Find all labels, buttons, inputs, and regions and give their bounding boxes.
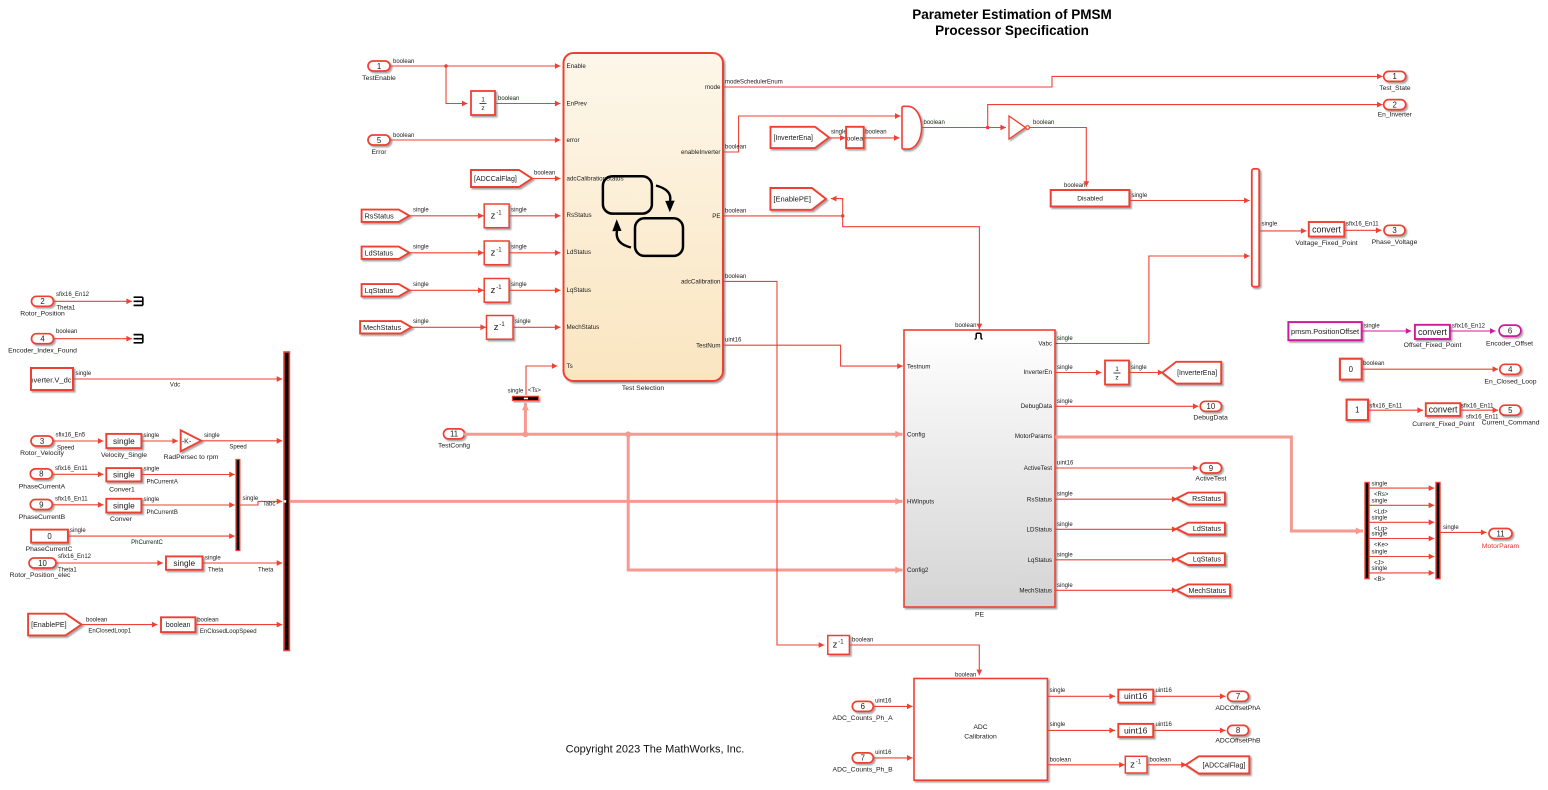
wire gain to mux Speed (201, 433, 282, 451)
inport 8 PhaseCurrentA (19, 469, 66, 490)
wire to Offset convert (1362, 323, 1412, 334)
outport 2 En_Inverter (1378, 100, 1413, 119)
goto tag RsStatus (1177, 493, 1225, 505)
wire unit delay to EnPrev (495, 96, 561, 106)
svg-text:-K-: -K- (182, 438, 192, 445)
svg-text:6: 6 (861, 702, 865, 711)
svg-text:Config2: Config2 (907, 567, 929, 574)
svg-text:Voltage_Fixed_Point: Voltage_Fixed_Point (1295, 240, 1357, 247)
svg-text:inverter.V_dc: inverter.V_dc (28, 376, 72, 385)
logical operator AND (902, 106, 922, 149)
svg-text:MechStatus: MechStatus (1019, 588, 1052, 595)
svg-text:uint16: uint16 (1156, 688, 1173, 694)
svg-text:LqStatus: LqStatus (1028, 557, 1052, 564)
svg-text:Phase_Voltage: Phase_Voltage (1372, 239, 1418, 246)
svg-text:single: single (1132, 193, 1148, 199)
outport 9 ActiveTest (1195, 463, 1226, 483)
svg-text:PhaseCurrentA: PhaseCurrentA (19, 483, 66, 490)
svg-text:single: single (1057, 365, 1073, 371)
data type conversion Current_Fixed_Point (1412, 403, 1474, 428)
svg-text:ADC_Counts_Ph_A: ADC_Counts_Ph_A (833, 715, 894, 722)
svg-text:single: single (144, 467, 160, 473)
svg-text:0: 0 (47, 532, 52, 541)
svg-text:z: z (833, 640, 838, 651)
svg-text:-1: -1 (496, 285, 502, 291)
svg-text:Config: Config (907, 432, 925, 439)
svg-text:single: single (1131, 365, 1147, 371)
wire delay to LqStatus input (509, 282, 560, 293)
svg-text:Current_Fixed_Point: Current_Fixed_Point (1412, 421, 1474, 428)
from tag ADCCalFlag (471, 170, 532, 187)
svg-text:EnClosedLoopSpeed: EnClosedLoopSpeed (200, 629, 257, 635)
wire ADC out A (1047, 688, 1115, 699)
inport 10 Rotor_Position_elec (10, 558, 71, 579)
svg-text:Encoder_Index_Found: Encoder_Index_Found (8, 348, 77, 355)
svg-text:single: single (1372, 566, 1388, 572)
wire 3 to Velocity_Single (53, 433, 104, 452)
svg-text:single: single (1372, 499, 1388, 505)
svg-text:RadPersec to rpm: RadPersec to rpm (164, 454, 219, 461)
data type conversion Offset_Fixed_Point (1404, 325, 1462, 349)
svg-text:single: single (1372, 481, 1388, 487)
svg-text:11: 11 (450, 430, 458, 439)
wire Disabled to switch (1129, 193, 1249, 203)
svg-text:MechStatus: MechStatus (567, 324, 600, 331)
svg-text:boolean: boolean (725, 274, 746, 280)
wire bus signal &lt;B&gt; (1369, 566, 1434, 583)
wire PhaseCurrentC to current mux (68, 528, 235, 546)
svg-text:[ADCCalFlag]: [ADCCalFlag] (474, 176, 517, 183)
chart icon transition arrow left (612, 219, 631, 247)
svg-text:single: single (205, 556, 221, 562)
svg-text:<Ld>: <Ld> (1374, 509, 1388, 515)
subsystem ADC Calibration (914, 679, 1047, 781)
svg-text:single: single (1057, 583, 1073, 589)
svg-text:boolean: boolean (725, 145, 746, 151)
wire NOT to Disabled (1030, 120, 1090, 189)
wire mode to Test_State (723, 74, 1383, 88)
svg-text:PhCurrentB: PhCurrentB (147, 510, 178, 516)
svg-text:7: 7 (861, 754, 865, 763)
svg-text:Ts: Ts (567, 363, 573, 370)
data type conversion Theta single (166, 556, 203, 569)
svg-text:single: single (173, 558, 195, 568)
svg-text:z: z (491, 211, 496, 222)
wire AND to NOT (922, 120, 1006, 130)
unit delay 1/z InverterEn (1105, 361, 1129, 385)
svg-text:LqStatus: LqStatus (567, 287, 591, 294)
svg-text:ADCOffsetPhA: ADCOffsetPhA (1215, 705, 1261, 712)
wire HWInputs bus to PE (290, 498, 903, 505)
unit delay z-1 MechStatus (487, 316, 514, 340)
inport 11 TestConfig (438, 429, 470, 450)
wire enableInverter to AND (723, 113, 901, 152)
svg-text:-1: -1 (838, 640, 844, 646)
svg-text:single: single (1050, 722, 1066, 728)
svg-text:ADCOffsetPhB: ADCOffsetPhB (1215, 737, 1261, 744)
wire Iabc to big mux (241, 496, 283, 508)
svg-text:convert: convert (1418, 327, 1447, 337)
svg-text:Speed: Speed (57, 446, 74, 452)
terminator Theta1 (134, 297, 143, 305)
gain RadPersec to rpm (164, 430, 219, 461)
wire uint16 B to outport 8 (1153, 722, 1225, 733)
wire boolean to big mux (195, 618, 282, 636)
wire branch to goto EnablePE (831, 196, 843, 216)
wire RsStatus tag to delay (409, 208, 483, 219)
svg-text:single: single (144, 497, 160, 503)
wire uint16 A to outport 7 (1153, 688, 1225, 699)
unit delay z-1 flag (1125, 756, 1147, 773)
wire convert to Phase_Voltage (1344, 222, 1381, 234)
svg-text:4: 4 (40, 335, 45, 344)
svg-text:LdStatus: LdStatus (567, 249, 591, 256)
wire 7 to ADC (873, 750, 912, 761)
svg-text:Offset_Fixed_Point: Offset_Fixed_Point (1404, 342, 1462, 349)
svg-text:single: single (243, 496, 259, 502)
outport 10 DebugData (1193, 401, 1228, 421)
svg-text:boolean: boolean (1150, 757, 1171, 763)
svg-text:uint16: uint16 (725, 338, 742, 344)
data type conversion boolean small (843, 127, 867, 148)
svg-text:LqStatus: LqStatus (1193, 556, 1221, 564)
svg-text:MechStatus: MechStatus (1189, 587, 1227, 595)
svg-text:Iabc: Iabc (264, 502, 275, 508)
svg-text:RsStatus: RsStatus (1027, 496, 1052, 503)
data type conversion Conver (106, 499, 141, 523)
svg-text:Theta: Theta (208, 568, 224, 574)
svg-text:Theta1: Theta1 (58, 568, 77, 574)
wire 6 to ADC (873, 699, 912, 710)
wire bus signal &lt;Ld&gt; (1369, 499, 1434, 516)
svg-text:Conver1: Conver1 (109, 486, 135, 493)
svg-text:En_Inverter: En_Inverter (1378, 111, 1413, 118)
wire bus signal &lt;Lq&gt; (1369, 516, 1434, 533)
wire ActiveTest out (1055, 461, 1199, 471)
wire Rotor_Position to terminator (54, 292, 132, 312)
inport 5 Error (368, 135, 390, 156)
wire Vabc to switch (1055, 253, 1250, 343)
svg-text:Speed: Speed (229, 445, 246, 451)
svg-text:LqStatus: LqStatus (365, 286, 394, 295)
svg-text:boolean: boolean (534, 171, 555, 177)
wire branch to En_Inverter (988, 102, 1383, 128)
svg-text:single: single (1372, 516, 1388, 522)
svg-text:1: 1 (377, 62, 381, 71)
wire RsStatus out (1055, 492, 1178, 502)
svg-text:[EnablePE]: [EnablePE] (31, 621, 67, 629)
svg-text:[EnablePE]: [EnablePE] (773, 195, 811, 204)
svg-text:-1: -1 (496, 210, 502, 216)
svg-text:boolean: boolean (1064, 183, 1085, 189)
svg-text:MechStatus: MechStatus (363, 323, 401, 332)
svg-text:LdStatus: LdStatus (1193, 525, 1221, 533)
wire 0 to En_Closed_Loop (1362, 361, 1499, 372)
svg-text:single: single (413, 282, 429, 288)
bus selector Ts bar (508, 388, 542, 401)
wire InverterEna to boolean conversion (829, 129, 847, 141)
svg-text:PE: PE (975, 612, 985, 619)
constant inverter.V_dc (28, 368, 73, 390)
from tag LqStatus (362, 284, 410, 296)
wire delay to MechStatus input (513, 319, 561, 330)
svg-text:Testnum: Testnum (907, 363, 930, 370)
from tag EnablePE lower (28, 614, 81, 636)
terminator Encoder (134, 335, 143, 343)
svg-text:boolean: boolean (86, 618, 107, 624)
svg-text:1: 1 (1393, 72, 1397, 81)
inport 7 ADC_Counts_Ph_B (833, 753, 894, 774)
svg-text:0: 0 (1349, 365, 1354, 374)
from tag LdStatus (362, 247, 410, 259)
wire bus signal &lt;Ke&gt; (1369, 532, 1434, 549)
svg-text:single: single (511, 282, 527, 288)
svg-text:RsStatus: RsStatus (1192, 495, 1221, 503)
wire LdStatus tag to delay (409, 245, 483, 256)
data type conversion Voltage_Fixed_Point (1295, 222, 1357, 247)
svg-text:modeSchedulerEnum: modeSchedulerEnum (725, 80, 783, 86)
svg-text:boolean: boolean (56, 329, 77, 335)
wire TestConfig bus to PE Config (464, 431, 903, 438)
mux phase currents (236, 460, 240, 551)
svg-text:single: single (511, 208, 527, 214)
svg-text:HWInputs: HWInputs (907, 499, 934, 506)
unit delay z-1 mid (828, 636, 850, 655)
svg-text:MotorParams: MotorParams (1015, 433, 1052, 440)
inport 4 Encoder_Index_Found (8, 334, 77, 355)
data type conversion uint16 A (1118, 690, 1153, 703)
svg-text:TestNum: TestNum (696, 342, 720, 349)
svg-text:Vdc: Vdc (170, 383, 180, 389)
svg-text:9: 9 (39, 500, 43, 509)
inport 1 TestEnable (362, 61, 396, 82)
goto tag ADCCalFlag (1186, 756, 1250, 773)
svg-text:ADC: ADC (973, 724, 987, 731)
svg-text:Test_State: Test_State (1379, 85, 1410, 92)
data type conversion Conver1 (106, 468, 141, 493)
wire Error to error (390, 133, 561, 143)
svg-text:<B>: <B> (1374, 577, 1386, 583)
goto tag EnablePE (770, 188, 826, 210)
svg-text:single: single (508, 388, 524, 394)
wire adcCalibration to delay (723, 274, 824, 648)
outport 7 ADCOffsetPhA (1215, 691, 1261, 712)
outport 6 Encoder_Offset (1486, 325, 1533, 348)
outport 5 Current_Command (1482, 405, 1540, 426)
wire ADCCalFlag to adcCalibrationStatus (532, 171, 561, 182)
svg-text:Parameter Estimation of PMSM: Parameter Estimation of PMSM (912, 7, 1112, 22)
wire delay to ADC trigger (849, 638, 982, 679)
svg-text:DebugData: DebugData (1193, 414, 1228, 421)
svg-text:single: single (113, 436, 135, 446)
svg-text:uint16: uint16 (1156, 722, 1173, 728)
svg-text:[InverterEna]: [InverterEna] (774, 135, 814, 142)
wire MotorParams bus (1055, 437, 1363, 535)
wire PE output to goto and trigger (723, 208, 845, 217)
svg-text:8: 8 (1236, 726, 1240, 735)
wire delay to LdStatus input (509, 245, 560, 256)
goto tag LqStatus (1177, 553, 1225, 565)
svg-text:<Ts>: <Ts> (528, 388, 542, 394)
svg-text:single: single (113, 501, 135, 511)
wire MechStatus tag to delay (412, 319, 487, 330)
svg-text:-1: -1 (1136, 759, 1142, 765)
svg-text:single: single (1364, 323, 1380, 329)
wire delay to goto ADCCalFlag (1147, 757, 1187, 767)
svg-text:DebugData: DebugData (1021, 403, 1053, 410)
svg-text:sfix16_En11: sfix16_En11 (1461, 403, 1494, 409)
svg-text:uint16: uint16 (1124, 726, 1148, 736)
constant 1 Current_Command (1347, 400, 1368, 421)
svg-text:1: 1 (1355, 406, 1359, 415)
svg-text:single: single (1372, 532, 1388, 538)
wire Vdc to mux (73, 371, 282, 389)
inport 9 PhaseCurrentB (19, 500, 66, 521)
wire convert to Encoder_Offset (1450, 323, 1496, 334)
svg-text:PE: PE (712, 213, 720, 220)
svg-text:8: 8 (39, 470, 43, 479)
outport 4 En_Closed_Loop (1484, 364, 1536, 385)
svg-text:ADC_Counts_Ph_B: ADC_Counts_Ph_B (833, 767, 894, 774)
wire Theta to big mux (203, 556, 283, 574)
from tag MechStatus (360, 321, 411, 333)
wire unit delay to goto InverterEna (1129, 365, 1164, 375)
svg-text:7: 7 (1236, 692, 1240, 701)
svg-text:single: single (1057, 492, 1073, 498)
svg-text:LDStatus: LDStatus (1027, 527, 1052, 534)
goto tag LdStatus (1177, 523, 1225, 535)
goto tag InverterEna right (1162, 362, 1221, 384)
svg-text:single: single (1372, 550, 1388, 556)
inport 2 Rotor_Position (20, 296, 65, 317)
logical operator NOT (1009, 116, 1029, 139)
wire bus signal &lt;J&gt; (1369, 550, 1434, 567)
wire branch up to Ts selector (522, 403, 529, 434)
outport 8 ADCOffsetPhB (1215, 725, 1261, 744)
wire ADC out flag (1047, 757, 1124, 767)
svg-text:Vabc: Vabc (1038, 341, 1052, 348)
svg-text:EnClosedLoop1: EnClosedLoop1 (88, 629, 131, 635)
svg-text:error: error (567, 137, 580, 144)
svg-text:single: single (1057, 552, 1073, 558)
wire branch to unit delay (446, 66, 468, 106)
wire TestNum to PE Testnum (723, 338, 903, 369)
data type conversion uint16 B (1118, 724, 1153, 737)
wire MechStatus out (1055, 583, 1178, 593)
wire 10 to single (56, 554, 163, 574)
wire switch to convert (1260, 222, 1307, 234)
svg-text:single: single (1057, 399, 1073, 405)
svg-text:Theta1: Theta1 (57, 305, 76, 311)
svg-text:sfix16_En11: sfix16_En11 (1346, 222, 1379, 228)
inport 3 Rotor_Velocity (20, 436, 64, 457)
svg-text:single: single (204, 433, 220, 439)
wire Ts selector to Ts input (526, 363, 558, 395)
svg-text:[InverterEna]: [InverterEna] (1177, 370, 1217, 377)
outport 11 MotorParam (1482, 529, 1520, 551)
svg-text:Encoder_Offset: Encoder_Offset (1486, 341, 1533, 348)
svg-text:sfix16_En5: sfix16_En5 (56, 433, 86, 439)
svg-text:1: 1 (1115, 366, 1119, 373)
wire Conver1 to current mux (141, 467, 234, 486)
svg-text:z: z (494, 322, 499, 333)
goto tag MechStatus (1177, 584, 1231, 596)
svg-text:single: single (70, 528, 86, 534)
svg-text:boolean: boolean (166, 622, 191, 629)
svg-text:mode: mode (705, 84, 721, 91)
data type conversion boolean (161, 617, 195, 632)
svg-text:uint16: uint16 (875, 750, 892, 756)
data type conversion Velocity_Single (101, 434, 147, 459)
wire bus signal &lt;Rs&gt; (1369, 481, 1434, 498)
svg-text:Current_Command: Current_Command (1482, 419, 1540, 426)
svg-text:Processor Specification: Processor Specification (935, 23, 1089, 38)
svg-text:single: single (1443, 525, 1459, 531)
svg-text:2: 2 (1393, 100, 1397, 109)
wire LqStatus out (1055, 552, 1178, 562)
wire LqStatus tag to delay (409, 282, 483, 293)
svg-text:MotorParam: MotorParam (1482, 543, 1520, 550)
svg-text:sfix16_En12: sfix16_En12 (1452, 323, 1486, 329)
svg-text:9: 9 (1209, 464, 1213, 473)
svg-text:En_Closed_Loop: En_Closed_Loop (1484, 379, 1536, 386)
svg-text:-1: -1 (496, 247, 502, 253)
bus creator right bar (1436, 483, 1440, 579)
svg-text:Enable: Enable (567, 63, 587, 70)
unit delay z-1 LdStatus (484, 241, 509, 265)
wire 8 to Conver1 (52, 466, 104, 477)
wire EnablePE to boolean (82, 618, 158, 635)
svg-text:single: single (515, 319, 531, 325)
svg-text:single: single (1050, 688, 1066, 694)
wire Conver to current mux (141, 497, 234, 516)
svg-text:single: single (831, 129, 847, 135)
svg-text:1: 1 (481, 97, 485, 104)
svg-text:single: single (1057, 522, 1073, 528)
svg-text:[ADCCalFlag]: [ADCCalFlag] (1203, 762, 1246, 769)
svg-text:boolean: boolean (955, 673, 976, 679)
svg-text:10: 10 (38, 559, 47, 568)
svg-text:boolean: boolean (852, 638, 873, 644)
svg-text:boolean: boolean (1050, 757, 1071, 763)
svg-text:single: single (413, 319, 429, 325)
svg-text:6: 6 (1508, 326, 1512, 335)
svg-text:adcCalibration: adcCalibration (681, 279, 721, 286)
constant PhaseCurrentC 0 (26, 530, 73, 553)
bus selector left bar (1365, 483, 1369, 579)
svg-text:enableInverter: enableInverter (681, 149, 721, 156)
svg-text:sfix16_En12: sfix16_En12 (58, 554, 92, 560)
wire TestEnable to Enable (390, 59, 561, 69)
outport 1 Test_State (1379, 71, 1410, 91)
unit delay 1/z (471, 91, 495, 115)
svg-text:boolean: boolean (924, 120, 945, 126)
svg-text:Calibration: Calibration (964, 734, 997, 741)
svg-text:ActiveTest: ActiveTest (1195, 476, 1226, 483)
constant pmsm.PositionOffset (1288, 322, 1361, 340)
unit delay z-1 LqStatus (484, 279, 509, 303)
svg-text:-1: -1 (499, 322, 505, 328)
svg-text:z: z (491, 248, 496, 259)
svg-text:uint16: uint16 (1124, 691, 1148, 701)
svg-text:z: z (481, 105, 484, 112)
chart icon transition arrow right (656, 186, 675, 213)
svg-text:Test Selection: Test Selection (622, 385, 665, 392)
svg-text:sfix16_En12: sfix16_En12 (56, 292, 90, 298)
svg-text:single: single (1262, 222, 1278, 228)
svg-text:PhCurrentA: PhCurrentA (147, 479, 178, 485)
svg-text:z: z (1115, 375, 1118, 382)
